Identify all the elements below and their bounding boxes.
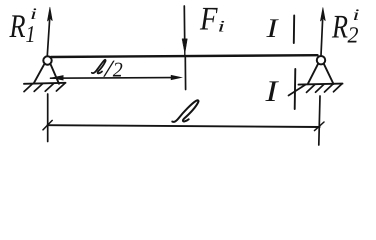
svg-text:R: R xyxy=(9,9,26,45)
support triangle left xyxy=(34,64,59,84)
arrowhead left of l/2 xyxy=(50,75,64,80)
dimension line l/2 xyxy=(51,77,172,80)
ground hatching right xyxy=(289,84,343,96)
tick left of dimension l xyxy=(43,120,52,129)
label l (span length) xyxy=(172,100,198,122)
svg-text:F: F xyxy=(199,2,218,38)
svg-text:i: i xyxy=(30,6,37,23)
tick right of dimension l xyxy=(315,122,325,131)
extension line left of dimension l xyxy=(47,94,49,142)
label l/2 xyxy=(92,60,106,73)
ground hatching left xyxy=(24,83,65,91)
ground line right xyxy=(299,84,343,85)
svg-text:i: i xyxy=(218,19,226,36)
ground line left xyxy=(24,83,66,84)
svg-text:1: 1 xyxy=(26,22,36,48)
reaction arrow R2 xyxy=(321,20,323,55)
section mark upper xyxy=(293,16,295,44)
svg-text:2: 2 xyxy=(348,23,359,48)
beam xyxy=(51,55,318,57)
support pin circle right xyxy=(317,56,325,64)
svg-text:I: I xyxy=(265,13,280,43)
svg-text:R: R xyxy=(331,10,348,46)
extension line midspan xyxy=(184,58,186,90)
support triangle right xyxy=(308,64,334,84)
extension line right of dimension l xyxy=(319,96,320,145)
svg-text:I: I xyxy=(264,75,280,108)
reaction arrow R1 xyxy=(47,20,49,56)
svg-text:2: 2 xyxy=(113,58,123,82)
force arrow Fi xyxy=(183,6,185,42)
dimension line l xyxy=(48,125,320,127)
arrowhead right of l/2 xyxy=(171,75,183,80)
section mark lower xyxy=(294,69,297,109)
support pin circle left xyxy=(43,56,51,64)
svg-text:i: i xyxy=(353,7,360,24)
